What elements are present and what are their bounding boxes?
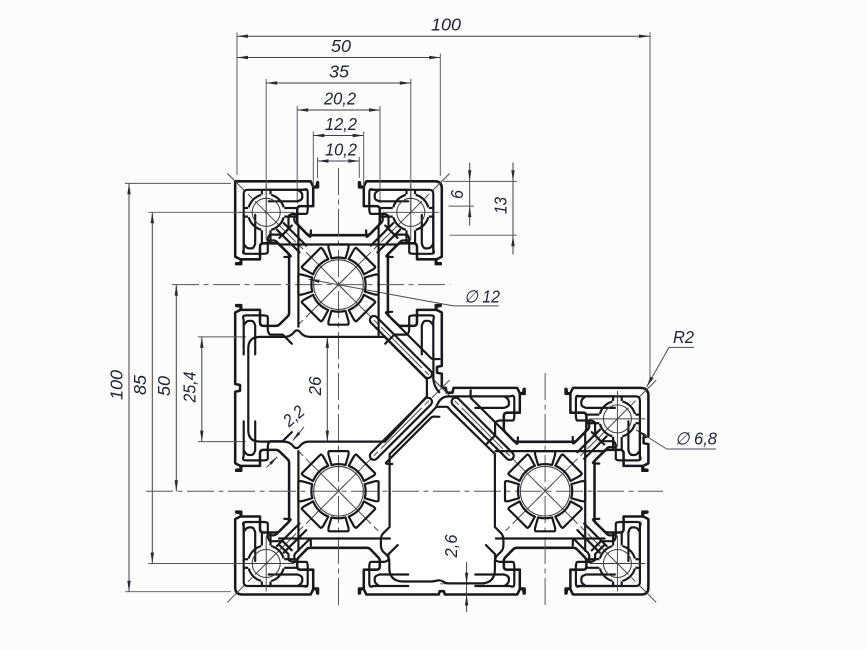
inner corner wall lines [433, 354, 439, 393]
screw boss right leg top [603, 405, 631, 433]
svg-text:∅ 6,8: ∅ 6,8 [675, 429, 717, 449]
svg-text:85: 85 [130, 375, 150, 395]
hollow chamber between cells B and C [381, 407, 504, 584]
svg-text:35: 35 [329, 62, 349, 82]
T-slot bottom face right inner walls [475, 545, 514, 587]
svg-text:100: 100 [107, 370, 127, 400]
center bore and star cavity lower right cell [520, 466, 570, 516]
leader diameter 6,8 screw hole [636, 430, 667, 449]
dimension lines [107, 15, 718, 612]
svg-text:25,4: 25,4 [179, 371, 199, 403]
svg-text:12,2: 12,2 [325, 114, 357, 134]
diagonal web channels cell C [452, 398, 514, 460]
diagonal web channels cell B [370, 398, 432, 460]
dimension 35 screw hole spacing [266, 82, 411, 84]
outer profile outline [235, 181, 648, 594]
screw boss top-right [397, 198, 425, 226]
leader diameter 12 center bore [309, 279, 454, 306]
svg-text:∅ 12: ∅ 12 [464, 287, 500, 307]
svg-text:20,2: 20,2 [323, 89, 356, 109]
dimension 85 hole spacing vertical [151, 212, 153, 563]
center bore and star cavity upper cell [314, 260, 364, 310]
svg-text:10,2: 10,2 [325, 140, 357, 160]
diagonal web channels cell A [277, 230, 300, 253]
T-slot bottom face left inner walls [269, 545, 308, 587]
dimension 6 slot throat depth [469, 163, 471, 226]
centerline horizontal axis A [172, 284, 450, 286]
dimension 12,2 slot throat width [313, 135, 363, 137]
dimension 13 slot total depth [512, 163, 514, 255]
dimension 26 chamber height inner [326, 337, 328, 442]
screw boss top-left [252, 198, 280, 226]
svg-text:50: 50 [154, 376, 174, 396]
svg-text:26: 26 [305, 376, 325, 396]
dimension 50 leg width [237, 57, 440, 59]
svg-text:R2: R2 [673, 327, 694, 347]
dimension 100 overall height [128, 183, 130, 591]
centerlines [146, 168, 663, 609]
centerline horizontal axis B-C [146, 490, 663, 492]
dimension 10,2 slot opening [318, 160, 360, 162]
center bore and star cavity lower left cell [314, 466, 364, 516]
dimension 100 overall width [237, 35, 650, 37]
T-slot top face of right leg inner walls [475, 396, 514, 445]
screw boss bottom-left [252, 550, 280, 578]
svg-text:13: 13 [491, 197, 511, 214]
leader R2 corner radius [647, 347, 669, 387]
dimension 20,2 slot cavity width [297, 109, 380, 111]
dimension 50 core spacing [175, 285, 177, 492]
svg-text:50: 50 [331, 36, 351, 56]
dimension 2,6 bottom wall thickness [466, 562, 468, 612]
svg-text:6: 6 [447, 190, 467, 199]
dimension 25,4 chamber height [201, 337, 203, 442]
inner details [238, 184, 645, 591]
leader 2,2 web thickness [293, 427, 304, 441]
screw boss right leg bottom [603, 550, 631, 578]
svg-text:2,6: 2,6 [441, 534, 461, 558]
centerline vertical axis C [544, 373, 546, 609]
T-slot top face inner walls [269, 189, 308, 238]
T-slot right face of upper leg inner walls [385, 215, 434, 254]
diagonal centerlines of cells [227, 174, 347, 294]
svg-text:100: 100 [431, 15, 461, 35]
hollow chamber between cells A and B [248, 330, 427, 448]
centerline vertical axis A-B [338, 168, 340, 609]
T-slot right face inner walls [592, 421, 641, 460]
T-slot left face lower inner walls [243, 421, 292, 460]
T-slot left face upper inner walls [243, 215, 292, 254]
